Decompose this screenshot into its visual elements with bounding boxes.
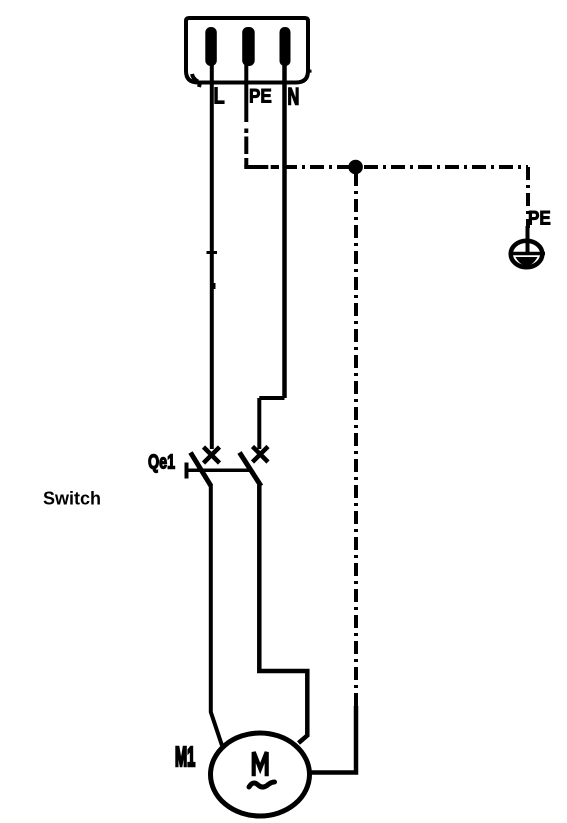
svg-text:L: L: [214, 83, 225, 108]
wire L vertical from plug to switch: [210, 64, 214, 449]
plug pin N: [280, 27, 291, 66]
earth symbol (protective earth) circle: [511, 241, 543, 268]
plug pin L: [205, 27, 217, 66]
wire N jog vertical to switch: [257, 398, 261, 449]
switch Qe1 handle tick: [185, 463, 189, 479]
wire L small tick artifact: [207, 251, 218, 254]
switch Qe1 pole 2 blade: [240, 453, 262, 487]
earth symbol filled lower segment: [516, 257, 538, 266]
wire N vertical from plug: [282, 64, 287, 398]
svg-text:PE: PE: [528, 208, 551, 229]
wire PE solid to earth symbol: [526, 226, 530, 254]
motor M1 circle: [211, 733, 310, 816]
wire pole 1 down to motor: [211, 485, 222, 746]
plug pin PE: [242, 27, 255, 66]
wire PE solid below plug: [244, 64, 248, 122]
svg-text:PE: PE: [249, 86, 272, 107]
motor M symbol: [254, 752, 267, 776]
wire pole 2 down with jog to motor: [259, 485, 307, 743]
earth symbol horizontal bar: [509, 252, 545, 256]
switch Qe1 pole 1 contact X: [204, 447, 220, 463]
svg-text:Switch: Switch: [43, 489, 101, 509]
wire PE dash-dot vertical long drop: [354, 173, 358, 706]
junction dot PE node: [348, 160, 363, 175]
wire PE dash-dot horizontal: [244, 165, 279, 169]
switch Qe1 mechanical linkage: [186, 469, 252, 473]
switch Qe1 pole 1 blade: [191, 453, 212, 487]
wire N jog horizontal: [259, 396, 284, 400]
svg-text:N: N: [288, 83, 300, 110]
switch Qe1 pole 2 contact X: [253, 447, 269, 463]
wire PE dash-dot drop to earth symbol: [526, 167, 530, 228]
plug bottom-right clip hook: [307, 70, 312, 74]
wire L small nub artifact: [212, 283, 216, 289]
svg-text:M1: M1: [175, 741, 195, 772]
plug XP1 outline: [186, 18, 308, 83]
svg-text:Qe1: Qe1: [148, 450, 175, 473]
plug bottom-left clip hook: [192, 74, 198, 82]
wire PE solid lower: [310, 706, 356, 773]
wire PE dash-dot vertical: [244, 129, 248, 168]
motor AC tilde: [249, 782, 275, 787]
